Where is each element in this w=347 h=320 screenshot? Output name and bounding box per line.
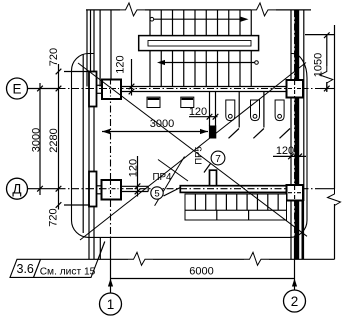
svg-text:ПР5: ПР5 bbox=[193, 146, 204, 164]
svg-text:ПР4: ПР4 bbox=[152, 172, 172, 183]
svg-text:720: 720 bbox=[48, 208, 60, 226]
svg-text:5: 5 bbox=[154, 189, 159, 200]
svg-text:120: 120 bbox=[189, 106, 207, 118]
svg-text:7: 7 bbox=[215, 154, 221, 165]
svg-text:1: 1 bbox=[107, 297, 115, 312]
svg-text:120: 120 bbox=[276, 145, 294, 157]
svg-text:3.6: 3.6 bbox=[17, 262, 34, 276]
svg-text:2: 2 bbox=[291, 294, 299, 309]
svg-text:1050: 1050 bbox=[313, 53, 325, 77]
svg-text:2280: 2280 bbox=[48, 128, 60, 152]
svg-text:3000: 3000 bbox=[30, 128, 42, 152]
svg-text:3000: 3000 bbox=[150, 118, 174, 130]
svg-text:120: 120 bbox=[128, 159, 140, 177]
svg-text:720: 720 bbox=[48, 48, 60, 66]
svg-text:Д: Д bbox=[12, 182, 21, 197]
svg-text:120: 120 bbox=[115, 55, 127, 73]
svg-text:См. лист 15: См. лист 15 bbox=[40, 266, 96, 277]
svg-text:Е: Е bbox=[12, 81, 21, 96]
svg-text:6000: 6000 bbox=[189, 266, 213, 278]
